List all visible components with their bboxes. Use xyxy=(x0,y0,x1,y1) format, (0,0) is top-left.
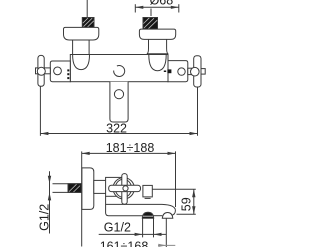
dimension G1/2 outlet xyxy=(99,220,167,236)
dimension 181÷188 xyxy=(82,141,176,246)
wall pipe (side view) xyxy=(53,184,83,193)
left inlet hatched block (front view) xyxy=(82,18,94,28)
left neck U-arc into body xyxy=(73,55,90,70)
handle base ring circle (side view) xyxy=(113,178,134,199)
dimension 322 xyxy=(40,87,197,136)
right knob end nub xyxy=(201,69,205,75)
spout block (front view) xyxy=(110,82,128,122)
svg-text:G1/2: G1/2 xyxy=(38,204,52,231)
left valve neck (front view) xyxy=(73,40,90,54)
spout bottom segment between outlet and aerator xyxy=(154,215,163,217)
right neck U-arc into body xyxy=(149,55,166,71)
left temperature dots xyxy=(67,69,69,79)
diverter open circle on body xyxy=(114,66,125,77)
right inlet hatched block (front view) xyxy=(143,18,158,30)
left escutcheon cap (front view) xyxy=(64,27,99,40)
right index black square xyxy=(167,69,171,73)
left handle knob (side profile pill) xyxy=(38,55,44,86)
valve body block (side view) xyxy=(106,177,122,196)
left knob cap circle xyxy=(37,67,45,75)
svg-text:59: 59 xyxy=(179,197,193,211)
svg-text:181÷188: 181÷188 xyxy=(106,141,155,155)
svg-text:G1/2: G1/2 xyxy=(104,220,131,234)
right handle housing xyxy=(168,61,188,82)
left handle housing xyxy=(50,61,70,82)
wall pipe hatched section (side view) xyxy=(68,184,81,193)
right valve neck with foot flare xyxy=(147,39,169,53)
right index dash xyxy=(164,71,166,73)
dimension Ø68 xyxy=(135,0,179,16)
dimension 59 xyxy=(152,189,196,214)
mixer center body (front view) xyxy=(70,55,168,82)
right handle knob (side profile pill) xyxy=(194,56,201,87)
aerator dome under spout tip xyxy=(162,213,173,219)
spout circle (front view) xyxy=(114,90,123,99)
rear connection cylinder (side view) xyxy=(94,180,107,193)
dimension G1/2 wall pipe xyxy=(38,171,52,233)
svg-text:161÷168: 161÷168 xyxy=(100,239,149,247)
right thermostat cap (front view) xyxy=(139,29,175,39)
diverter knob box (side view) xyxy=(143,185,152,197)
svg-text:Ø68: Ø68 xyxy=(150,0,174,7)
wall escutcheon plate (side view) xyxy=(82,168,94,210)
left handle stem xyxy=(44,68,50,74)
shower outlet dark cap xyxy=(142,212,153,218)
cross handle horizontal bar xyxy=(109,185,141,191)
cross handle hub circle xyxy=(123,186,128,191)
handle base inner ellipse xyxy=(115,179,131,197)
cross handle vertical bar xyxy=(122,174,127,205)
right handle stem xyxy=(188,68,194,74)
left housing screw circle xyxy=(54,67,62,75)
shower outlet cylinder (side view) xyxy=(143,218,154,237)
right knob cap circle xyxy=(191,67,200,76)
right housing screw circle xyxy=(178,68,185,75)
spout outline (side view) xyxy=(106,204,176,215)
svg-text:322: 322 xyxy=(106,121,127,135)
left knob end nub xyxy=(36,68,38,74)
body underside and spout bottom (side view) xyxy=(106,196,143,215)
wire shower pipe line top xyxy=(86,0,88,18)
dimension 161÷168 xyxy=(100,218,176,247)
